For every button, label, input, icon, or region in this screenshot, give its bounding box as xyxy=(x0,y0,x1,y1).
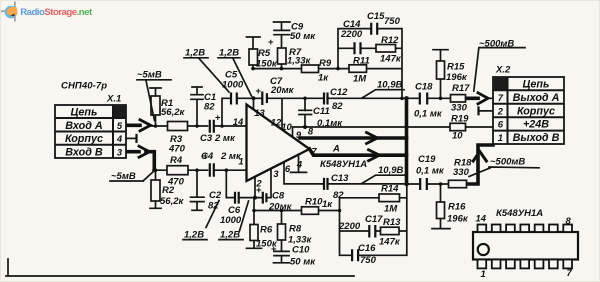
svg-text:К548УН1А: К548УН1А xyxy=(496,208,543,219)
svg-text:50 мк: 50 мк xyxy=(290,31,316,42)
svg-text:R4: R4 xyxy=(170,155,183,166)
svg-text:R5: R5 xyxy=(258,48,271,59)
svg-text:R13: R13 xyxy=(383,217,401,228)
svg-text:4: 4 xyxy=(116,133,123,144)
svg-text:9: 9 xyxy=(296,129,302,140)
svg-text:C2: C2 xyxy=(209,190,222,201)
svg-text:2200: 2200 xyxy=(338,221,361,232)
svg-text:1М: 1М xyxy=(353,74,367,85)
svg-text:7: 7 xyxy=(567,267,573,278)
svg-text:C19: C19 xyxy=(418,154,436,165)
svg-text:10: 10 xyxy=(281,121,292,132)
svg-text:0,1 мк: 0,1 мк xyxy=(416,166,445,177)
svg-text:C13: C13 xyxy=(331,173,349,184)
svg-text:330: 330 xyxy=(451,103,468,114)
svg-text:Вход В: Вход В xyxy=(65,146,103,158)
svg-text:R14: R14 xyxy=(381,184,399,195)
svg-text:СНП40-7р: СНП40-7р xyxy=(61,81,107,92)
svg-text:5: 5 xyxy=(117,120,123,131)
svg-text:1к: 1к xyxy=(318,73,329,84)
svg-text:2200: 2200 xyxy=(340,29,363,40)
svg-text:C11: C11 xyxy=(313,106,330,117)
svg-text:А: А xyxy=(332,144,340,155)
svg-text:4: 4 xyxy=(296,158,303,169)
svg-text:1,2В: 1,2В xyxy=(219,48,239,59)
svg-text:+: + xyxy=(215,113,221,124)
svg-text:82: 82 xyxy=(204,102,215,113)
svg-text:10: 10 xyxy=(452,131,463,142)
svg-text:Цепь: Цепь xyxy=(71,106,98,118)
svg-text:C3: C3 xyxy=(200,133,213,144)
svg-text:8: 8 xyxy=(308,126,314,137)
svg-text:6: 6 xyxy=(498,119,504,130)
svg-text:1: 1 xyxy=(481,268,486,279)
svg-text:56,2к: 56,2к xyxy=(160,196,184,207)
svg-text:R17: R17 xyxy=(452,83,470,94)
svg-text:Корпус: Корпус xyxy=(65,133,103,145)
svg-text:R10: R10 xyxy=(305,197,323,208)
svg-text:470: 470 xyxy=(168,144,186,155)
svg-text:82: 82 xyxy=(333,190,344,201)
svg-text:R9: R9 xyxy=(319,58,332,69)
svg-text:1,33к: 1,33к xyxy=(287,56,311,67)
svg-text:Выход В: Выход В xyxy=(513,132,560,144)
svg-text:Цепь: Цепь xyxy=(523,79,550,91)
svg-text:R6: R6 xyxy=(260,225,273,236)
svg-text:20мк: 20мк xyxy=(268,202,293,213)
svg-text:56,2к: 56,2к xyxy=(161,107,185,118)
svg-text:C16: C16 xyxy=(358,243,376,254)
svg-text:RadioStorage.net: RadioStorage.net xyxy=(20,7,93,18)
svg-text:2 мк: 2 мк xyxy=(214,133,236,144)
svg-text:R8: R8 xyxy=(289,224,302,235)
svg-text:Вход А: Вход А xyxy=(65,120,103,132)
svg-text:6: 6 xyxy=(285,163,291,174)
svg-text:82: 82 xyxy=(332,101,343,112)
svg-text:470: 470 xyxy=(167,177,185,188)
svg-text:C17: C17 xyxy=(365,214,383,225)
svg-text:R15: R15 xyxy=(447,62,465,73)
svg-text:50 мк: 50 мк xyxy=(290,257,316,268)
svg-text:1: 1 xyxy=(498,132,503,143)
svg-text:20мк: 20мк xyxy=(270,85,295,96)
svg-text:+: + xyxy=(256,185,262,196)
svg-text:8: 8 xyxy=(566,215,572,226)
svg-text:3: 3 xyxy=(273,168,279,179)
svg-text:14: 14 xyxy=(476,213,487,224)
svg-text:C10: C10 xyxy=(292,245,310,256)
svg-text:R16: R16 xyxy=(448,202,466,213)
svg-text:~5мВ: ~5мВ xyxy=(137,70,162,81)
svg-text:К548УН1А: К548УН1А xyxy=(320,159,367,170)
svg-text:Корпус: Корпус xyxy=(517,105,555,117)
svg-text:147к: 147к xyxy=(379,237,401,248)
svg-text:+: + xyxy=(256,86,262,97)
svg-text:+: + xyxy=(203,151,209,162)
svg-text:C18: C18 xyxy=(415,82,433,93)
svg-text:~500мВ: ~500мВ xyxy=(490,157,525,168)
svg-text:+24В: +24В xyxy=(523,119,549,131)
svg-text:C15: C15 xyxy=(367,11,385,22)
svg-text:330: 330 xyxy=(453,167,470,178)
svg-text:196к: 196к xyxy=(446,72,468,83)
svg-text:7: 7 xyxy=(311,146,317,157)
svg-text:C8: C8 xyxy=(272,191,285,202)
svg-text:14: 14 xyxy=(233,116,244,127)
svg-text:750: 750 xyxy=(384,16,401,27)
svg-text:+: + xyxy=(268,37,274,48)
svg-text:150к: 150к xyxy=(256,59,278,70)
svg-text:Выход А: Выход А xyxy=(513,92,560,104)
svg-text:Х.1: Х.1 xyxy=(106,94,121,105)
svg-text:750: 750 xyxy=(360,255,377,266)
svg-text:R12: R12 xyxy=(381,35,399,46)
svg-text:196к: 196к xyxy=(447,214,469,225)
svg-text:13: 13 xyxy=(254,107,265,118)
svg-text:0,1мк: 0,1мк xyxy=(317,118,343,129)
svg-text:2 мк: 2 мк xyxy=(220,151,242,162)
svg-text:1к: 1к xyxy=(322,199,333,210)
svg-text:1000: 1000 xyxy=(220,215,242,226)
svg-text:2: 2 xyxy=(497,105,504,116)
svg-text:R19: R19 xyxy=(451,114,469,125)
svg-text:3: 3 xyxy=(117,146,123,157)
svg-text:1,2В: 1,2В xyxy=(185,48,205,59)
svg-text:Х.2: Х.2 xyxy=(495,65,511,76)
svg-text:+: + xyxy=(271,244,277,255)
svg-text:147к: 147к xyxy=(380,54,402,65)
svg-text:1М: 1М xyxy=(384,204,398,215)
svg-text:C12: C12 xyxy=(330,87,348,98)
svg-text:R11: R11 xyxy=(353,56,370,67)
svg-text:0,1 мк: 0,1 мк xyxy=(414,109,443,120)
svg-text:7: 7 xyxy=(498,92,504,103)
